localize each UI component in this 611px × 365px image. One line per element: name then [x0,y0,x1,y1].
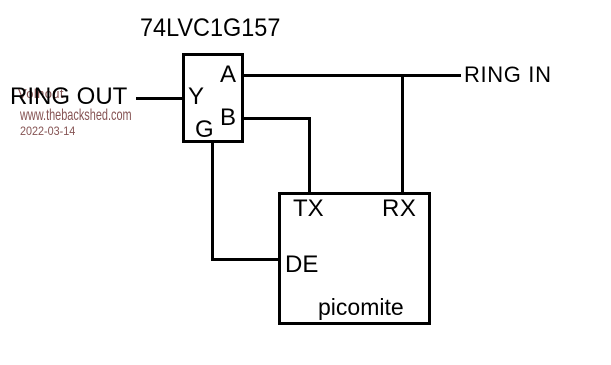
wire pin G vertical [211,142,214,261]
watermark author Volhout [18,87,64,100]
wire pin B horizontal [244,117,311,120]
multiplexer U1 74LVC1G157 body [182,53,244,143]
module name picomite [318,296,404,319]
wire G-net horizontal to DE [211,258,281,261]
wire RING OUT to pin Y [136,97,183,100]
pin label DE [285,253,318,277]
watermark date 2022-03-14 [20,125,75,137]
pin label RX [382,197,416,221]
pin label Y [188,85,204,109]
pin label TX [293,197,324,221]
pin label B [220,106,236,130]
watermark www.thebackshed.com [20,108,132,124]
IC title label 74LVC1G157 [140,16,280,41]
wire pin A to RING IN [244,74,461,77]
pin label G [195,118,214,142]
node label RING OUT [10,85,127,109]
pin label A [220,63,236,87]
node label RING IN [464,64,552,86]
wire junction drop A-net to RX [401,75,404,193]
wire B-net vertical to TX [308,117,311,193]
picomite module body [278,192,431,325]
